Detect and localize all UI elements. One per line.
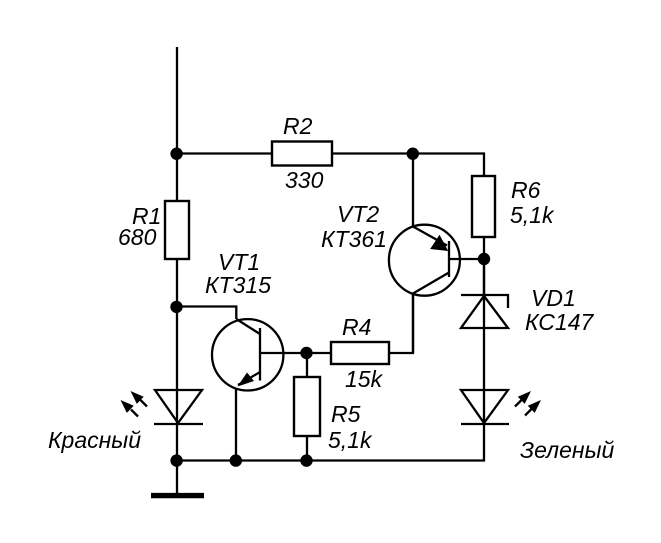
- LED red triangle: [155, 390, 202, 423]
- zener diode VD1 KC147: [461, 259, 508, 424]
- wire: VT2 emitter lead from top rail: [412, 154, 414, 227]
- wire: R1 top lead: [176, 154, 178, 202]
- resistor R6: [472, 176, 495, 237]
- wire: LED red top lead (continues through symbol): [176, 307, 178, 425]
- VT1 emitter inner diagonal: [238, 372, 260, 385]
- VT1 emitter arrowhead: [238, 373, 255, 387]
- svg-text:5,1k: 5,1k: [328, 427, 373, 453]
- wire: R4 left lead: [307, 352, 331, 354]
- wire: R5 bottom lead: [306, 436, 308, 461]
- wire: VT1 base lead: [260, 352, 307, 354]
- svg-text:КС147: КС147: [525, 309, 594, 335]
- VT1 collector inner diagonal: [236, 319, 260, 334]
- svg-text:Красный: Красный: [48, 427, 141, 453]
- svg-text:КТ315: КТ315: [205, 272, 271, 298]
- wire: R6 bottom lead: [483, 237, 485, 295]
- LED red VD2: [121, 307, 204, 461]
- wire: VT1 collector lead from R1 bottom node: [177, 307, 236, 320]
- wire: ground stub: [176, 461, 178, 494]
- LED red cathode bar: [154, 423, 203, 425]
- node: junction VT1 base / R4 / R5: [300, 347, 312, 359]
- node: junction at R1 top: [170, 148, 182, 160]
- svg-text:R4: R4: [342, 314, 371, 340]
- resistor R1: [165, 201, 189, 259]
- resistor R5: [294, 377, 320, 436]
- svg-text:330: 330: [285, 167, 324, 193]
- resistor R2: [272, 142, 332, 166]
- node: junction VT2 base / R6 / VD1: [478, 253, 490, 265]
- VT2 emitter inner diagonal: [413, 227, 447, 246]
- wire: LED green bottom lead: [177, 424, 484, 461]
- VT1 base bar: [259, 328, 261, 381]
- wire: R4 right lead up to VT2 collector: [389, 294, 413, 353]
- VT2 emitter arrowhead: [430, 235, 448, 251]
- wire: VT2 base lead: [449, 258, 484, 260]
- LED red light arrow 1: [140, 400, 147, 407]
- LED green VD3: [177, 390, 541, 461]
- svg-text:680: 680: [118, 224, 157, 250]
- resistor R4: [331, 342, 389, 364]
- wire: VT2 collector lead down: [412, 294, 414, 354]
- svg-text:Зеленый: Зеленый: [520, 437, 614, 463]
- node: junction at VT2 emitter: [407, 148, 419, 160]
- svg-text:5,1k: 5,1k: [510, 202, 555, 228]
- svg-text:R6: R6: [511, 177, 541, 203]
- wire: top horizontal rail right segment: [332, 154, 484, 177]
- VT2 collector inner diagonal: [413, 273, 449, 294]
- svg-text:VT2: VT2: [337, 201, 379, 227]
- LED red light arrow 2: [131, 410, 138, 417]
- svg-text:15k: 15k: [345, 366, 384, 392]
- node: junction bottom rail at red LED: [170, 454, 182, 466]
- wire: VT1 emitter lead down: [235, 388, 237, 460]
- LED green triangle: [461, 390, 508, 423]
- transistor VT2 KT361: [389, 154, 484, 354]
- wire: top supply vertical: [176, 47, 178, 154]
- transistor VT1 KT315: [177, 307, 307, 461]
- LED green light arrow 1: [515, 400, 522, 407]
- wire: VD1 top lead (continues through symbol): [483, 259, 485, 328]
- node: junction bottom rail at R5: [300, 454, 312, 466]
- VD1 cathode bar with bent end: [461, 295, 508, 308]
- svg-text:R2: R2: [283, 113, 313, 139]
- svg-text:КТ361: КТ361: [321, 226, 387, 252]
- wire: LED red bottom lead: [176, 424, 178, 461]
- wire: R5 top lead: [306, 353, 308, 377]
- wire: VD1 bottom lead: [483, 328, 485, 424]
- wire: R1 bottom lead: [176, 259, 178, 306]
- ground: [151, 493, 204, 498]
- VD1 triangle: [461, 296, 508, 328]
- wire: top horizontal rail left segment: [177, 152, 272, 154]
- LED green cathode bar: [461, 423, 509, 425]
- LED green light arrow 2: [525, 409, 532, 416]
- VT2 base bar: [448, 241, 450, 277]
- svg-text:VD1: VD1: [531, 285, 576, 311]
- node: junction at R1 bottom / VT1 collector branch: [170, 301, 182, 313]
- svg-text:R5: R5: [331, 401, 361, 427]
- node: junction bottom rail at VT1 emitter: [230, 454, 242, 466]
